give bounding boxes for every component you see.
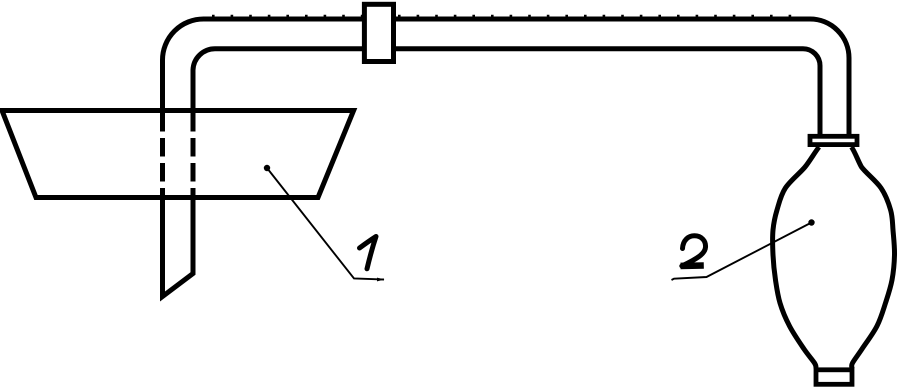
pipe outer wall (left riser, top run, right drop) (163, 19, 850, 135)
leader arrow tip 1 (377, 278, 385, 282)
leader line for label 2 (672, 223, 812, 281)
leader line for label 1 (267, 168, 384, 280)
tick texture on pipe top edge (212, 15, 796, 17)
pipe coupler fitting (364, 4, 393, 61)
flange collar above bulb (810, 136, 857, 144)
tube lower tip (bevel-cut end below trough) (163, 196, 194, 297)
trough container 1 (trapezoid body) (2, 111, 354, 198)
label digit 2 (682, 236, 706, 266)
rubber bulb 2 (white body fill) (773, 147, 895, 368)
pipe inner wall (193, 49, 820, 135)
label digit 1 (360, 237, 377, 269)
rubber bulb 2 left contour (773, 147, 819, 368)
hidden tube left line (dashed inside trough) (160, 113, 165, 197)
bulb bottom cap (816, 370, 852, 385)
hidden tube right line (dashed inside trough) (191, 113, 196, 197)
rubber bulb 2 right contour (852, 147, 895, 368)
leader dot 1 (264, 165, 270, 171)
leader dot 2 (808, 219, 814, 225)
